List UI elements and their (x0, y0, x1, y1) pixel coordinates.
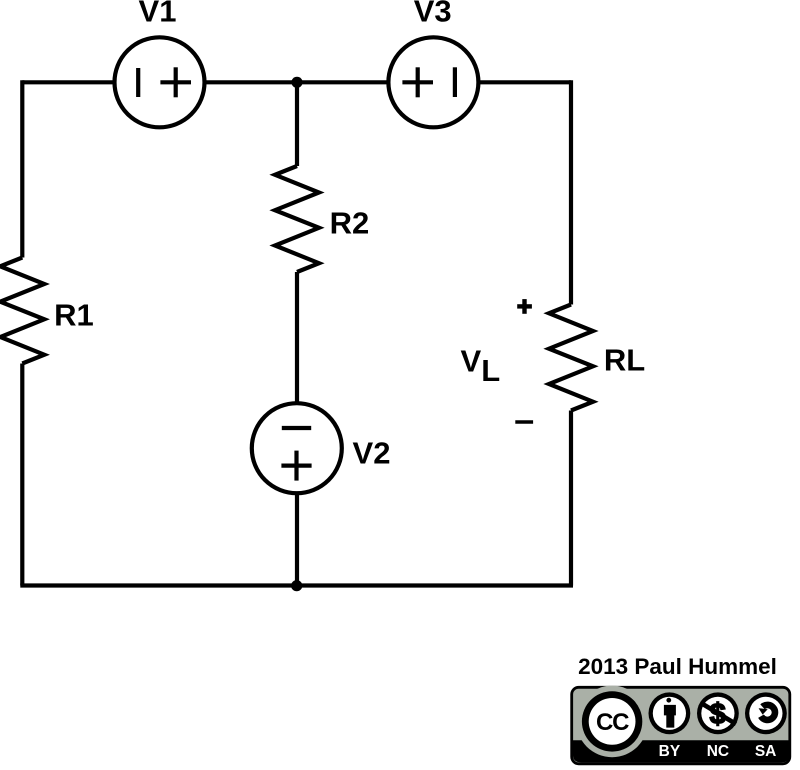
svg-text:BY: BY (659, 743, 681, 760)
svg-text:CC: CC (596, 709, 629, 736)
svg-text:SA: SA (755, 743, 777, 760)
svg-text:RL: RL (604, 343, 645, 378)
svg-text:V1: V1 (139, 0, 177, 28)
svg-text:R1: R1 (54, 298, 94, 333)
svg-text:V3: V3 (414, 0, 452, 28)
svg-text:2013 Paul Hummel: 2013 Paul Hummel (578, 654, 777, 679)
svg-text:V2: V2 (353, 436, 391, 471)
svg-text:NC: NC (707, 743, 729, 760)
svg-text:R2: R2 (330, 206, 370, 241)
